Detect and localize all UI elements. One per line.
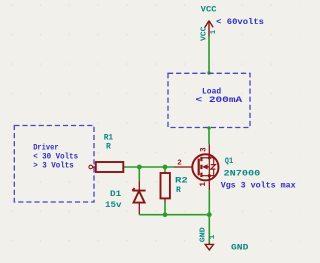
transistor Q1 (174, 144, 218, 190)
svg-text:1: 1 (209, 234, 217, 239)
power symbol VCC (205, 21, 213, 37)
wire Load box to Q1 drain (208, 128, 210, 145)
wire Q1 source down (208, 190, 210, 215)
wire R2 to bottom rail (164, 203, 166, 215)
note box Driver (14, 126, 94, 203)
resistor R2 (161, 173, 170, 204)
wire end dot at Load top (207, 71, 210, 74)
svg-text:R: R (176, 186, 181, 195)
wire R1 to Q1 gate (124, 166, 174, 168)
svg-text:3: 3 (201, 147, 209, 152)
svg-text:R: R (106, 142, 111, 151)
svg-text:1: 1 (210, 30, 218, 34)
resistor R1 (89, 162, 126, 172)
svg-text:GND: GND (199, 227, 207, 242)
svg-text:2: 2 (177, 160, 181, 168)
svg-text:> 3 Volts: > 3 Volts (33, 161, 74, 171)
svg-text:D1: D1 (110, 190, 121, 199)
wire bottom rail (138, 213, 140, 216)
wire junction to R2 (164, 167, 166, 173)
wire end dot at Load bottom (207, 126, 210, 129)
wire junction to D1 (138, 167, 140, 180)
svg-text:R1: R1 (104, 134, 114, 143)
svg-text:Q1: Q1 (225, 157, 234, 166)
svg-text:VCC: VCC (200, 27, 208, 42)
svg-text:GND: GND (231, 243, 249, 252)
zener diode D1 (132, 180, 145, 214)
svg-text:R2: R2 (175, 176, 188, 185)
wire VCC to Load box (208, 37, 210, 74)
svg-text:1: 1 (200, 182, 208, 187)
note box Load (168, 73, 250, 127)
junction at GND branch (207, 212, 212, 217)
junction at R2 bottom (163, 212, 168, 217)
junction above D1 (137, 165, 142, 170)
svg-text:< 200mA: < 200mA (196, 95, 244, 105)
power symbol GND (205, 243, 213, 250)
svg-text:Vgs 3 volts max: Vgs 3 volts max (221, 180, 296, 190)
svg-text:< 60volts: < 60volts (216, 17, 264, 27)
junction above R2 (163, 165, 168, 170)
wire to GND (208, 215, 210, 244)
svg-text:2N7000: 2N7000 (224, 169, 261, 178)
svg-text:15v: 15v (105, 201, 122, 210)
svg-text:VCC: VCC (201, 6, 217, 15)
